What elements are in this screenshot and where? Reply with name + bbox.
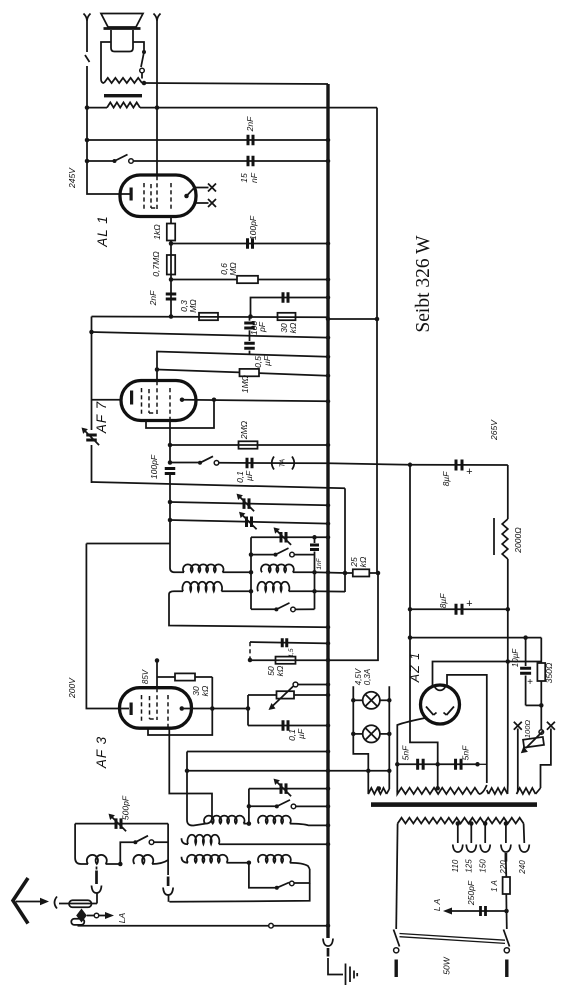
antenna: [13, 878, 28, 924]
speaker plug terminal: [84, 14, 91, 22]
wire box2 left: [248, 789, 250, 824]
wire to AVC corner: [315, 590, 346, 592]
svg-text:200V: 200V: [67, 677, 77, 699]
line with trimmer to bus: [170, 502, 328, 505]
svg-text:kΩ: kΩ: [200, 685, 210, 696]
svg-text:MΩ: MΩ: [228, 262, 238, 276]
mains primary winding: [398, 818, 524, 824]
node A: [85, 105, 90, 110]
wire primary left: [87, 107, 107, 109]
node M: [247, 860, 252, 865]
node F: [212, 397, 217, 402]
svg-text:100pF: 100pF: [248, 215, 258, 240]
svg-text:8µF: 8µF: [438, 593, 448, 609]
capacitor 250pF: [452, 910, 507, 912]
line B decoupled supply: [92, 482, 346, 488]
hum potentiometer 100&#937;: [540, 705, 542, 729]
switch S8 antenna: [120, 842, 135, 864]
switch S4 box1: [251, 554, 275, 556]
wire around tube: [146, 400, 214, 428]
switch S1 speaker: [142, 50, 146, 54]
wire speaker right lead: [133, 42, 144, 51]
capacitor 8uF upper: [456, 460, 462, 471]
line heater 1: [187, 752, 206, 826]
arrow LA mains: [443, 908, 452, 915]
chassis bus (main vertical earth line): [326, 84, 329, 938]
svg-text:500pF: 500pF: [121, 795, 131, 820]
svg-text:265V: 265V: [489, 419, 499, 441]
wire speaker left lead: [101, 42, 111, 79]
wire AZ1 anode 2: [447, 675, 487, 783]
trimmer capacitor: [86, 435, 97, 440]
resistor 2000&#937;: [507, 465, 509, 519]
svg-text:µF: µF: [262, 355, 272, 366]
svg-text:1kΩ: 1kΩ: [152, 224, 162, 240]
speaker LS1: [101, 14, 143, 28]
wire grid-cap lead AL1: [156, 21, 158, 176]
node P: [506, 607, 511, 612]
svg-text:10µF: 10µF: [511, 648, 520, 668]
wire around AF3: [148, 677, 212, 735]
svg-text:245V: 245V: [67, 167, 77, 189]
svg-text:2nF: 2nF: [148, 290, 158, 306]
coil L2b: [257, 582, 289, 591]
svg-text:0,7MΩ: 0,7MΩ: [151, 251, 161, 277]
capacitor 1nF AVC: [250, 642, 328, 643]
tap 125: [469, 821, 474, 826]
capacitor 100pF interline: [249, 317, 251, 321]
node Q: [539, 703, 544, 708]
node R: [504, 909, 509, 914]
svg-text:1MΩ: 1MΩ: [240, 374, 250, 393]
bus socket: [323, 939, 333, 947]
coil L5b: [258, 855, 291, 863]
resistor 0,6M&#937;: [171, 279, 237, 281]
node J: [375, 317, 380, 322]
resistor 350&#937;: [540, 638, 542, 663]
tap 110: [456, 821, 461, 826]
node secondary-right: [142, 81, 147, 86]
filter line 10uF/350ohm: [410, 637, 541, 639]
fuse holder: [69, 900, 92, 907]
svg-text:+: +: [466, 466, 473, 478]
svg-text:nF: nF: [249, 172, 259, 183]
lamp rail right: [388, 686, 390, 789]
connector block: [71, 919, 84, 925]
wire cathode AL1: [170, 216, 172, 224]
ground: [346, 964, 358, 986]
svg-text:1 A: 1 A: [490, 880, 499, 892]
wire box1 bottom return: [169, 595, 328, 628]
wire B+ line: [410, 464, 508, 466]
wire primary right / anode supply: [140, 107, 377, 109]
output transformer primary winding: [107, 102, 140, 107]
wire line T to supply: [328, 463, 410, 465]
jack TA: [272, 457, 295, 470]
wire AZ1 anode 1: [397, 718, 427, 765]
resistor 0,7M&#937;: [167, 255, 175, 275]
rectifier heater winding: [489, 788, 508, 794]
anode AL1: [184, 194, 189, 199]
svg-text:2MΩ: 2MΩ: [239, 420, 249, 440]
node E: [248, 314, 253, 319]
wire mains-antenna line: [78, 925, 327, 927]
antenna coil La: [87, 855, 107, 864]
capacitor 0,1&#181;F: [247, 458, 252, 469]
capacitor to bus: [251, 298, 329, 317]
svg-text:100Ω: 100Ω: [523, 720, 532, 739]
svg-text:µF: µF: [296, 728, 306, 739]
lamp rail left: [353, 686, 368, 771]
switch S2 and capacitor 15nF: [87, 160, 114, 162]
antenna coil Lb: [133, 855, 153, 864]
capacitor 10uF: [525, 638, 527, 666]
resistor 50k&#937;: [276, 657, 296, 664]
svg-text:50W: 50W: [442, 956, 452, 974]
svg-text:pF: pF: [257, 321, 267, 333]
heater winding a: [368, 787, 386, 794]
coil L2a: [169, 591, 183, 594]
svg-text:kΩ: kΩ: [358, 556, 368, 567]
anode AF7: [180, 397, 185, 402]
grid line L1: [169, 314, 174, 319]
potentiometer with arrow: [248, 694, 277, 696]
node I: [376, 571, 381, 576]
lamp LP1 4,5V 0,3A: [363, 692, 380, 709]
node G: [312, 535, 317, 540]
transformer core: [371, 802, 537, 807]
line heater 2: [187, 770, 389, 772]
svg-text:5nF: 5nF: [461, 745, 471, 760]
anode AF3: [180, 706, 185, 711]
wire to heater winding: [367, 771, 369, 787]
resistor 30k&#937; AF3: [157, 676, 175, 678]
node K: [246, 706, 251, 711]
tap 240: [523, 824, 526, 844]
svg-text:+: +: [527, 677, 533, 688]
switch S6 box2: [247, 804, 252, 809]
svg-text:TA: TA: [280, 458, 287, 467]
switch link: [400, 934, 506, 944]
tap 220: [504, 821, 509, 826]
svg-text:4,5V: 4,5V: [354, 668, 363, 685]
line L2: [92, 332, 329, 338]
svg-text:+: +: [466, 598, 473, 610]
tube AF3 envelope: [120, 688, 192, 729]
diamond connector: [76, 909, 87, 923]
wire box1 left: [250, 537, 252, 609]
svg-text:kΩ: kΩ: [275, 665, 285, 676]
wire cathode AF7: [169, 421, 171, 465]
tube AZ1 envelope: [421, 685, 460, 724]
wire long supply vertical: [250, 108, 378, 661]
dashed link: [249, 642, 251, 660]
fuse 1A: [505, 853, 508, 862]
tube AL1 envelope: [120, 175, 196, 217]
capacitors 5nF: [397, 763, 477, 765]
speaker plug terminal: [154, 14, 161, 22]
capacitor 2nF: [87, 139, 328, 141]
svg-text:AZ 1: AZ 1: [408, 652, 422, 683]
line with trimmer T to bus: [170, 520, 328, 524]
capacitor 500pF: [75, 823, 168, 825]
node B: [155, 105, 160, 110]
wire grid-cap AF3: [156, 661, 158, 689]
resistor 0,3M&#937;: [199, 313, 218, 320]
tap 150: [483, 821, 488, 826]
HV winding: [397, 788, 479, 794]
capacitor 0,5&#181;F interline: [249, 336, 251, 341]
svg-text:AL 1: AL 1: [95, 215, 110, 248]
svg-text:240: 240: [518, 860, 527, 875]
resistor 30k&#937;: [278, 313, 296, 320]
node H: [343, 571, 348, 576]
capacitor 1nF padding: [314, 537, 316, 543]
node O: [408, 463, 413, 468]
svg-text:AF 7: AF 7: [94, 401, 109, 434]
coil L4: [182, 838, 189, 844]
svg-text:250pF: 250pF: [466, 880, 476, 906]
coil L3b: [258, 816, 291, 824]
wire AVC line: [315, 571, 346, 574]
mains switch left: [396, 824, 397, 930]
svg-text:100pF: 100pF: [149, 454, 159, 479]
wire to bus top: [144, 83, 328, 84]
wire rectifier output: [507, 609, 509, 784]
wire 200V branch: [86, 543, 170, 545]
wire heater right: [541, 742, 551, 788]
capacitor 100pF cathode: [165, 469, 176, 474]
coil L3a: [204, 816, 245, 824]
wire heater left: [517, 742, 519, 792]
wire antenna coil right: [167, 824, 169, 875]
transformer core: [104, 94, 142, 97]
node C: [169, 241, 174, 246]
coil L1a: [170, 568, 184, 572]
switch S5 box1 lower: [251, 608, 276, 610]
svg-text:kΩ: kΩ: [288, 322, 298, 333]
heater terminal X left: [514, 722, 522, 730]
svg-text:8µF: 8µF: [441, 471, 451, 487]
svg-text:150: 150: [479, 859, 488, 873]
svg-text:AF 3: AF 3: [94, 736, 109, 769]
svg-text:350Ω: 350Ω: [544, 662, 554, 683]
plug pin right: [167, 877, 170, 887]
svg-text:2nF: 2nF: [245, 116, 255, 132]
svg-text:125: 125: [465, 859, 474, 873]
switch S7 box2 lower: [249, 863, 276, 888]
node N: [118, 862, 123, 867]
plug pin left: [96, 867, 98, 870]
mains switch right: [506, 911, 508, 929]
svg-text:0,3A: 0,3A: [363, 669, 372, 685]
svg-text:LA: LA: [117, 912, 127, 923]
heater pins AL1: [196, 187, 209, 189]
svg-text:Seibt 326 W: Seibt 326 W: [413, 235, 434, 333]
trimmer line box1: [251, 536, 328, 538]
svg-text:L A: L A: [432, 899, 442, 912]
switch S3 on pickup line: [168, 460, 173, 465]
resistor 2M&#937; line: [168, 443, 173, 448]
wire AF3 bottom: [169, 729, 212, 824]
svg-text:85V: 85V: [141, 669, 150, 684]
node L: [247, 821, 252, 826]
capacitor 2nF grid AL1: [166, 294, 177, 299]
svg-text:2000Ω: 2000Ω: [513, 527, 523, 554]
wire bus to supply vertical: [328, 318, 377, 320]
heater terminal X right: [547, 722, 555, 730]
coil L1b: [261, 564, 294, 572]
svg-text:1nF: 1nF: [316, 557, 323, 569]
wire 245V feed: [85, 21, 130, 194]
svg-text:5nF: 5nF: [401, 745, 411, 760]
wire cathode branch: [247, 695, 249, 726]
svg-text:MΩ: MΩ: [188, 299, 198, 313]
capacitor 8uF lower: [410, 608, 508, 610]
capacitor 0,1&#181;F AF3: [248, 725, 328, 727]
wire AVC vertical: [344, 488, 346, 592]
lamp LP2: [363, 725, 380, 742]
line L3 grid-cap AF7: [157, 352, 328, 381]
tube AF7 envelope: [121, 381, 196, 421]
capacitor 100pF: [171, 243, 328, 245]
svg-text:15: 15: [239, 173, 249, 183]
wire to antenna sockets: [169, 883, 309, 902]
node D: [169, 277, 174, 282]
wire filter vertical: [410, 465, 438, 765]
heater winding b: [517, 788, 536, 794]
wire antenna coil left: [75, 824, 88, 864]
resistor 1k&#937;: [167, 224, 175, 241]
socket LA: [87, 915, 94, 917]
coil L5a: [182, 857, 189, 863]
line L4 with resistor 1M&#937;: [157, 370, 240, 373]
trimmer line box2: [249, 788, 328, 790]
resistor 25k&#937;: [345, 572, 353, 574]
output transformer secondary winding: [104, 78, 142, 83]
wire AZ1 filament: [433, 662, 542, 687]
svg-text:µF: µF: [244, 470, 254, 481]
svg-text:110: 110: [451, 859, 460, 872]
wire anode feed AF7: [91, 317, 93, 431]
